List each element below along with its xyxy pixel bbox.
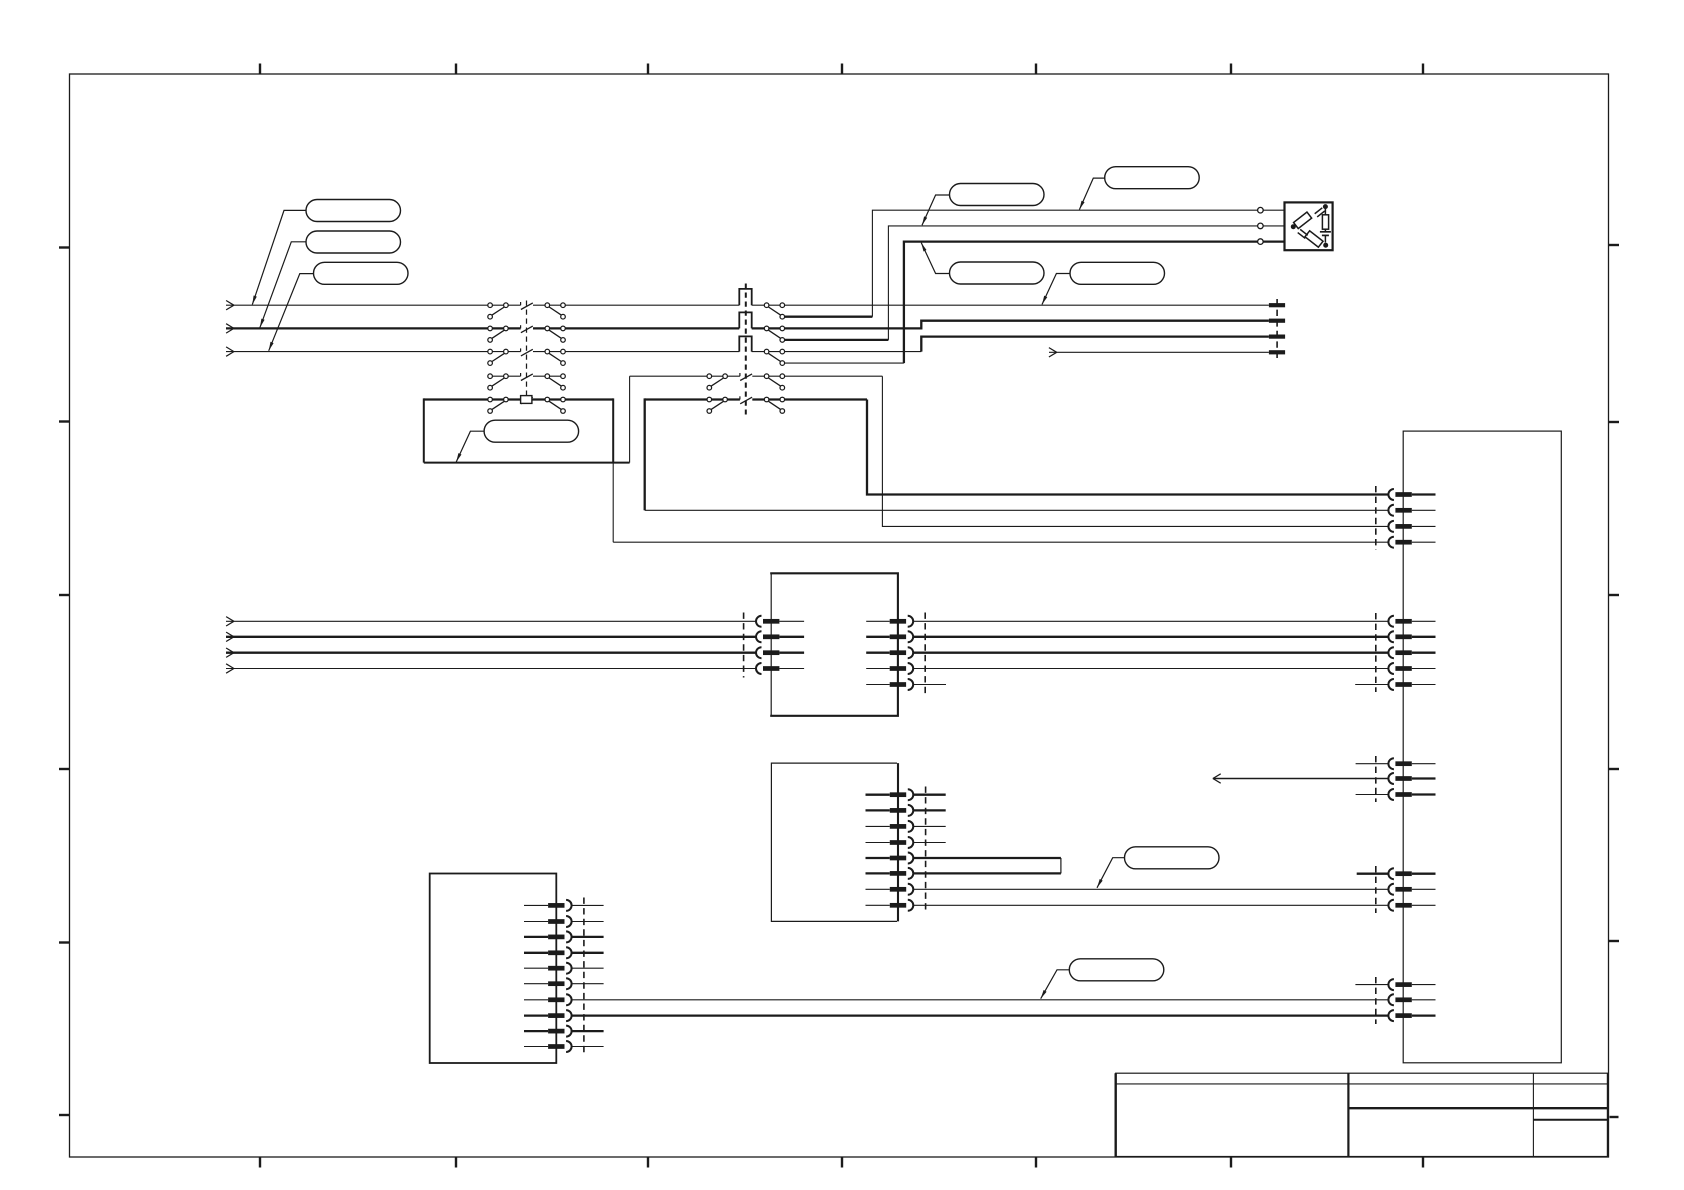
wire M3-5 stub	[572, 967, 604, 969]
wire W5 phase C to terminal T3	[752, 337, 1269, 352]
transformer TR1 right pin 3	[866, 647, 913, 658]
wire T3 to transformer TR1	[226, 652, 756, 654]
wire M3-6 stub	[572, 983, 604, 985]
relay RY2 row4 right contact group	[764, 374, 784, 390]
terminal T4	[1269, 350, 1285, 354]
relay RY2 row4 blade	[740, 373, 752, 381]
ECU pin GA-3	[1388, 647, 1435, 658]
transformer TR1 left connector dashed link	[743, 613, 745, 678]
wire M1 right edge down to node G1-4	[612, 398, 614, 542]
ECU pin GB-2	[1388, 773, 1435, 784]
leader arrow from balloon B1	[456, 431, 484, 462]
ECU pin GA-4	[1388, 663, 1435, 674]
transformer TR1 left pin 4	[756, 663, 804, 674]
connector hump row3	[739, 336, 751, 351]
noise filter FL1 with delta RC network	[1285, 202, 1333, 250]
ECU pin GB-1	[1356, 758, 1436, 769]
module M2 pin 2	[866, 805, 914, 816]
relay RY1 row3 left contact group	[488, 349, 508, 365]
wire M3-1 stub	[572, 904, 604, 906]
wire RY1 row2 to hump 2	[533, 327, 739, 329]
module M2 connector dashed link	[925, 787, 927, 914]
wire M2-2 stub	[913, 809, 946, 811]
relay RY2 row3 contact group	[764, 349, 784, 365]
transformer TR1 right pin 1	[866, 616, 913, 627]
module M3 pin 1	[524, 900, 572, 911]
terminal T2	[1269, 319, 1285, 323]
module M3 pin 6	[524, 978, 572, 989]
connector hump row1	[739, 289, 751, 305]
callout balloon B9	[1125, 847, 1220, 869]
wire M2-4 stub	[913, 842, 946, 844]
relay RY1 row3 blade	[521, 348, 533, 356]
ECU pin GA-2	[1388, 631, 1435, 642]
leader arrow from balloon B10	[1041, 970, 1070, 999]
ECU pin GC-3	[1388, 900, 1435, 911]
connector hump row2	[739, 312, 751, 328]
ECU pin GA-5	[1355, 679, 1435, 690]
wire RY1 row4 segment	[490, 375, 563, 377]
module M3 pin 4	[524, 947, 572, 958]
wire M3-8 to ECU pin GD-3	[572, 1014, 1389, 1016]
wire RY2 row5 feed	[645, 398, 740, 400]
relay RY1 row5 left contact group	[488, 397, 508, 413]
box module M1 left edge and bottom wire	[424, 398, 630, 462]
callout balloon B1 in module M1	[484, 420, 578, 442]
callout balloon B6	[1105, 167, 1200, 189]
wire RY2 row4 feed	[630, 375, 740, 377]
wire T4 to transformer TR1	[226, 668, 756, 670]
wire W7 aux with source arrow	[1049, 348, 1269, 357]
callout balloon B3	[306, 231, 401, 253]
relay RY1 row4 right contact group	[545, 374, 565, 390]
callout balloon B2	[306, 200, 401, 222]
wire T2 to transformer TR1	[226, 636, 756, 638]
module M2 pin 3	[866, 821, 914, 832]
relay RY1 row4 blade	[521, 373, 533, 381]
module M3 pin 7	[524, 994, 572, 1005]
wire M3-2 stub	[572, 921, 604, 923]
wire RY1 row1 to hump 1	[533, 304, 739, 306]
leader arrow from balloon B5	[922, 195, 950, 225]
ECU connector G1 dashed link	[1375, 486, 1377, 550]
callout balloon B4	[314, 262, 409, 284]
wire RY2 row4 output to ECU pin G1-3	[752, 376, 1388, 526]
module M2 pin 6	[866, 868, 914, 879]
terminal circle F2	[1258, 223, 1285, 229]
transformer TR1 right connector dashed link	[924, 613, 926, 694]
wire W6 RY2 row3 NO contact to filter FL1	[785, 242, 1258, 364]
relay RY1 row1 right contact group	[545, 303, 565, 319]
module M2 pin 8	[866, 900, 914, 911]
terminal T3	[1269, 335, 1285, 339]
transformer TR1 box	[770, 573, 898, 716]
module M3 pin 8	[524, 1010, 572, 1021]
ECU pin GD-1	[1355, 979, 1435, 990]
callout balloon B5	[950, 184, 1045, 206]
callout balloon B7	[950, 262, 1045, 284]
ECU connector GC dashed link	[1375, 866, 1377, 913]
relay RY2 row5 blade	[740, 396, 752, 404]
terminal strip dashed link	[1276, 299, 1278, 358]
relay RY1 row2 left contact group	[488, 326, 508, 342]
leader arrow from balloon B8	[1042, 274, 1070, 305]
terminal circle F1	[1258, 207, 1285, 213]
ECU connector GD dashed link	[1375, 977, 1377, 1024]
relay RY1 row3 right contact group	[545, 349, 565, 365]
relay RY1 row2 right contact group	[545, 326, 565, 342]
wire M3-10 stub	[572, 1046, 604, 1048]
relay RY2 row4 left contact group	[707, 374, 727, 390]
ECU pin G1-1	[1388, 489, 1435, 500]
wire RY1 row5 output to M1 corner	[563, 398, 613, 400]
input arrow T4	[226, 664, 234, 673]
relay RY2 row5 left contact group	[707, 397, 727, 413]
ECU pin GA-1	[1388, 616, 1435, 627]
leader arrow from balloon B6	[1079, 178, 1104, 210]
relay RY1 row4 left contact group	[488, 374, 508, 390]
ECU pin GD-3	[1388, 1010, 1435, 1021]
relay RY2 dashed actuator link	[745, 284, 747, 415]
ECU pin GB-3	[1356, 789, 1436, 800]
callout balloon B8	[1070, 262, 1165, 284]
relay RY2 row5 right contact group	[764, 397, 784, 413]
wire TR1-4 to ECU pin GA-4	[913, 668, 1388, 670]
relay RY1 row2 blade	[521, 325, 533, 333]
wire M3-3 stub	[572, 936, 604, 938]
ECU connector GB dashed link	[1375, 756, 1377, 802]
input arrow L2	[226, 324, 234, 333]
module M3 pin 2	[524, 916, 572, 927]
title block	[1116, 1073, 1619, 1156]
relay RY1 row5 blade	[521, 396, 533, 404]
wire L2 to relay RY1 row2	[226, 327, 521, 329]
wire L3 to relay RY1 row3	[226, 351, 521, 353]
leader arrow from balloon B7	[921, 243, 949, 274]
wire M2-3 stub	[913, 825, 946, 827]
signal arrow into ECU pin GB-2	[1213, 774, 1389, 783]
ECU connector GA dashed link	[1375, 613, 1377, 692]
input arrow L3	[226, 347, 234, 356]
ECU pin G1-3	[1388, 521, 1435, 532]
wire M3-7 to ECU pin GD-2	[572, 999, 1389, 1001]
wire RY2 row5 output to ECU pin G1-1	[752, 400, 1388, 495]
module M3 pin 9	[524, 1026, 572, 1037]
wire M2-8 to ECU pin GC-3	[913, 904, 1388, 906]
wire W4 RY2 row2 NO contact to filter FL1	[785, 226, 1258, 340]
module M2 pin 5	[866, 853, 914, 864]
callout balloon B10	[1069, 959, 1164, 981]
leader arrow from balloon B2	[252, 210, 306, 304]
module M2 pin 1	[866, 789, 914, 800]
terminal T1	[1269, 303, 1285, 307]
wire RY1 row5 coil feed	[424, 398, 563, 400]
wire W3 phase B to terminal T2	[752, 321, 1269, 329]
relay RY1 coil	[521, 396, 532, 404]
wire M2-1 stub	[913, 794, 946, 796]
transformer TR1 right pin 2	[866, 631, 913, 642]
leader arrow from balloon B3	[260, 242, 306, 328]
ECU pin GC-2	[1388, 884, 1435, 895]
wire RY1 row3 to hump 3	[533, 351, 739, 353]
leader arrow from balloon B4	[269, 274, 314, 351]
transformer TR1 left pin 3	[756, 647, 804, 658]
relay RY1 row5 right contact group	[545, 397, 565, 413]
module M2 box	[771, 763, 898, 921]
wire T1 to transformer TR1	[226, 620, 756, 622]
relay RY1 row1 blade	[521, 302, 533, 310]
wire M1 bottom up to relay RY2 row4	[629, 376, 631, 462]
wire box2 left leg to ECU pin G1-2	[645, 398, 1389, 510]
input arrow L1	[226, 301, 234, 310]
transformer TR1 right pin 5	[866, 679, 913, 690]
relay RY2 row2 contact group	[764, 326, 784, 342]
wire M3-9 stub	[572, 1030, 604, 1032]
wire TR1-2 to ECU pin GA-2	[913, 636, 1388, 638]
ECU box	[1403, 431, 1561, 1063]
module M3 box	[430, 874, 557, 1064]
module M2 pin 7	[866, 884, 914, 895]
wire node G1-4 to ECU pin G1-4	[613, 541, 1388, 543]
wire TR1-1 to ECU pin GA-1	[913, 620, 1388, 622]
wire W2 RY2 row1 NO contact to filter FL1	[785, 210, 1258, 317]
wire M2-7 to ECU pin GC-2	[913, 888, 1388, 890]
shielded loop from M2 pins 5-6	[913, 858, 1061, 873]
leader arrow from balloon B9	[1097, 858, 1125, 888]
transformer TR1 right pin 4	[866, 663, 913, 674]
wire L1 to relay RY1 row1	[226, 304, 521, 306]
transformer TR1 left pin 1	[756, 616, 804, 627]
relay RY1 row1 left contact group	[488, 303, 508, 319]
module M2 pin 4	[866, 837, 914, 848]
wire M3-4 stub	[572, 952, 604, 954]
wire TR1-3 to ECU pin GA-3	[913, 652, 1388, 654]
module M3 pin 10	[524, 1041, 572, 1052]
wire W1 phase A to terminal T1	[752, 304, 1269, 306]
input arrow T3	[226, 648, 234, 657]
relay RY2 row1 contact group	[764, 303, 784, 319]
ECU pin G1-2	[1388, 505, 1435, 516]
input arrow T2	[226, 632, 234, 641]
module M3 pin 5	[524, 963, 572, 974]
ECU pin GD-2	[1388, 994, 1435, 1005]
module M3 pin 3	[524, 931, 572, 942]
transformer TR1 left pin 2	[756, 631, 804, 642]
terminal circle F3	[1258, 239, 1285, 245]
module M3 connector dashed link	[583, 898, 585, 1055]
input arrow T1	[226, 617, 234, 626]
ECU pin G1-4	[1388, 537, 1435, 548]
wire TR1-5 stub	[913, 684, 946, 686]
relay RY1 dashed actuator link	[526, 301, 528, 396]
ECU pin GC-1	[1357, 868, 1436, 879]
